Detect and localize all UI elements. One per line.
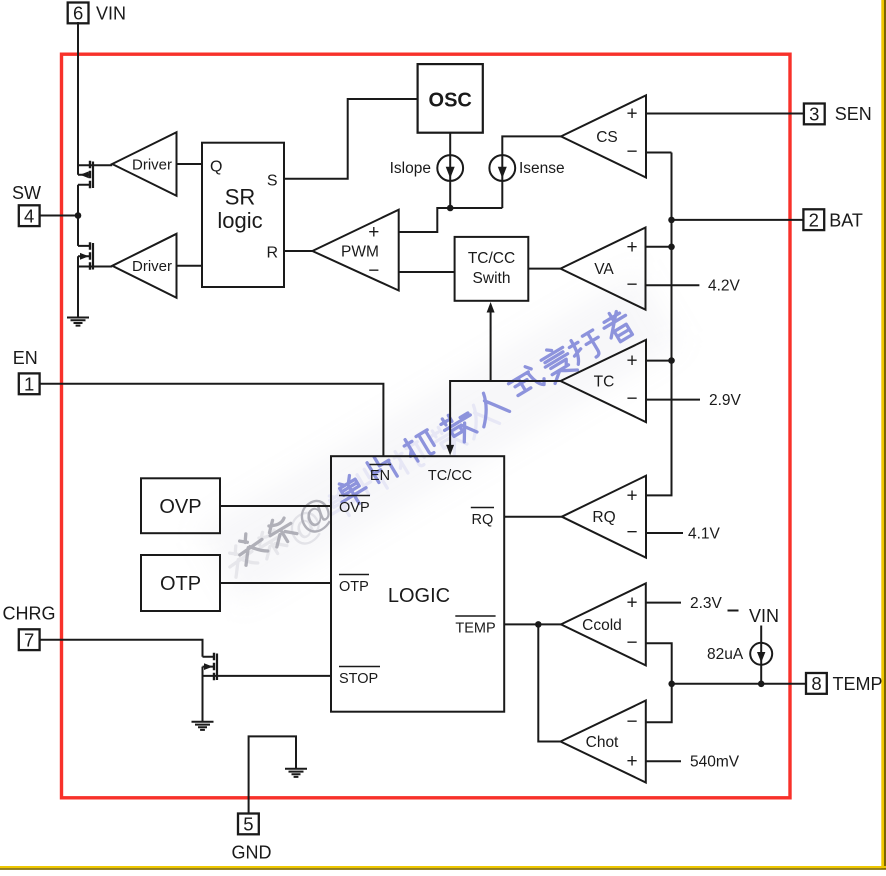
svg-text:EN: EN [370,468,390,484]
wire bus [646,153,672,496]
svg-text:+: + [368,222,379,243]
svg-text:540mV: 540mV [690,754,740,771]
wire CS output to Isense [502,136,561,155]
svg-text:Swith: Swith [473,270,511,287]
svg-text:+: + [626,751,637,772]
wire minus tick [728,610,739,612]
svg-text:8: 8 [811,673,821,694]
comparator Ccold [561,583,646,665]
svg-text:82uA: 82uA [707,646,744,663]
wire node to PWM+ [399,208,451,232]
comparator TC [561,340,647,422]
svg-text:LOGIC: LOGIC [388,585,450,607]
arrow into LOGIC [446,445,454,456]
block OTP [141,555,220,611]
svg-text:−: − [626,389,637,410]
嵌 [439,406,481,448]
pin 1 EN [19,373,40,394]
wire TEMP [672,683,806,685]
svg-text:−: − [626,274,637,295]
svg-text:BAT: BAT [829,211,863,231]
svg-text:+: + [626,593,637,614]
svg-text:TEMP: TEMP [455,621,495,637]
wire CHRG to Q3 [40,640,203,657]
wire RQ- 4.1V [646,532,683,534]
transistor Q2 (NMOS low side) [78,246,112,267]
wire Chot+ 540mV [646,760,681,762]
wire VA- 4.2V [646,284,700,286]
svg-text:−: − [626,142,637,163]
svg-text:−: − [626,632,637,653]
wire to TC/CC switch (up arrow) [490,312,492,382]
wire EN [40,384,384,456]
svg-text:Driver: Driver [132,156,172,173]
buffer Driver (lower) [112,234,176,298]
svg-text:STOP: STOP [339,671,378,687]
node VA+ junction [668,244,675,251]
svg-text:VIN: VIN [96,4,126,24]
wire Chot- to TEMP node [646,684,672,723]
svg-text:logic: logic [217,208,262,233]
wire BAT [672,219,804,221]
wire Ccold output to LOGIC [504,623,561,625]
wire PWM output to R [284,250,312,252]
svg-text:Islope: Islope [390,160,431,177]
条 [264,513,298,548]
node BAT junction [668,217,675,224]
svg-text:R: R [266,245,278,262]
block TC/CC Swith [455,237,529,301]
机 [402,427,439,464]
flip-flop SR logic [202,143,284,287]
pin 7 CHRG [19,629,40,650]
wire PWM- to TC/CC switch [399,271,455,273]
svg-text:3: 3 [809,104,819,125]
transistor Q3 (CHRG open drain) [203,657,332,722]
svg-text:+: + [626,485,637,506]
frame edge right (yellow) [881,0,884,869]
svg-text:5: 5 [243,814,253,835]
svg-text:OTP: OTP [160,573,201,595]
wire Q1 gate to SR logic [177,163,203,165]
svg-text:S: S [267,173,278,190]
wire Chot output [538,624,560,741]
svg-text:OSC: OSC [429,90,472,112]
comparator CS [561,95,646,177]
svg-text:+: + [626,237,637,258]
wire VA+ [646,246,672,248]
svg-text:−: − [626,522,637,543]
svg-text:CHRG: CHRG [3,604,56,624]
wire TC- 2.9V [646,399,700,401]
wire Ccold+ 2.3V [646,602,681,604]
wire node to Isense [450,207,502,209]
wire CS+ to SEN [646,113,804,115]
wire TC+ [646,360,672,362]
svg-text:OTP: OTP [339,579,369,595]
ground (below Q3) [192,722,214,730]
block LOGIC [331,456,504,712]
svg-text:TC: TC [594,374,615,391]
svg-text:RQ: RQ [472,512,494,528]
wire GND [249,736,296,814]
wire Islope to node [449,181,451,208]
pin 4 SW [19,205,40,226]
svg-text:TEMP: TEMP [833,674,883,694]
svg-text:SW: SW [12,183,41,203]
node SW junction [75,212,82,219]
comparator RQ [562,476,646,558]
wire S to OSC [284,99,418,179]
watermark text 头条@单片机嵌入式爱好者 (stylized strokes) [222,307,636,578]
wire TC output [450,381,560,446]
block OVP [141,478,220,533]
svg-text:RQ: RQ [592,509,615,526]
wire Q2 gate to SR logic [177,265,203,267]
svg-text:CS: CS [596,129,618,146]
current source Isense [489,155,515,181]
wire Ccold- to TEMP node [646,643,672,684]
svg-text:EN: EN [13,348,38,368]
oscillator OSC [418,64,483,133]
frame edge bottom (yellow) [0,866,886,868]
svg-text:VA: VA [594,261,614,278]
comparator VA [561,228,646,310]
pin 8 TEMP [806,673,827,694]
svg-text:Ccold: Ccold [582,617,622,634]
svg-text:4.1V: 4.1V [688,526,721,543]
svg-text:−: − [368,261,379,282]
node Chot output junction [535,621,542,628]
svg-text:2: 2 [809,209,819,230]
wire CS- to bus [646,152,672,154]
pin 2 BAT [803,209,824,230]
svg-text:Isense: Isense [519,160,565,177]
svg-text:6: 6 [73,3,83,24]
wire OTP to LOGIC [220,582,331,584]
svg-text:−: − [626,711,637,732]
transistor Q1 (PMOS high side) [78,165,112,185]
wire OSC to Islope [449,133,451,155]
svg-text:Q: Q [210,159,222,176]
overlines for LOGIC pins [339,465,496,667]
svg-text:OVP: OVP [159,496,201,518]
svg-text:SR: SR [225,184,256,209]
svg-text:Chot: Chot [586,734,619,751]
pin 6 VIN [68,3,89,24]
node 82uA junction [758,681,765,688]
node TEMP junction [668,681,675,688]
svg-text:1: 1 [24,374,34,395]
current source Islope [437,155,463,181]
爱 [538,342,577,384]
svg-text:Driver: Driver [132,258,172,275]
入 [469,387,510,427]
wire SW [40,215,78,217]
pin 5 GND [238,814,259,835]
svg-text:SEN: SEN [835,104,872,124]
svg-text:4: 4 [24,205,34,226]
buffer Driver (upper) [112,132,176,196]
svg-text:PWM: PWM [341,244,379,261]
svg-text:TC/CC: TC/CC [428,468,472,484]
单 [332,471,371,510]
式 [505,362,546,400]
wire OVP to LOGIC [220,505,331,507]
node TC+ junction [668,357,675,364]
wire VA output to TC/CC switch [528,268,560,270]
好 [566,328,606,367]
者 [599,307,636,346]
comparator PWM [312,210,398,291]
@ [289,488,341,542]
node slope/sense junction [447,205,454,212]
ground (below Q2) [67,318,89,326]
comparator Chot [561,701,646,783]
ground (internal) [285,769,307,777]
wire RQ output to LOGIC [504,516,562,518]
svg-text:+: + [626,104,637,125]
svg-text:VIN: VIN [749,606,779,626]
头 [232,528,269,565]
pin 3 SEN [804,104,825,125]
svg-text:2.9V: 2.9V [709,392,742,409]
wire VIN rail [77,22,79,318]
svg-text:4.2V: 4.2V [708,278,741,295]
svg-text:2.3V: 2.3V [690,595,723,612]
svg-text:GND: GND [232,843,272,863]
IC boundary (red) [62,54,791,798]
片 [367,452,399,486]
svg-text:7: 7 [24,629,34,650]
current source 82uA [760,626,762,684]
svg-text:+: + [626,351,637,372]
svg-text:OVP: OVP [339,500,370,516]
svg-text:TC/CC: TC/CC [468,250,515,267]
